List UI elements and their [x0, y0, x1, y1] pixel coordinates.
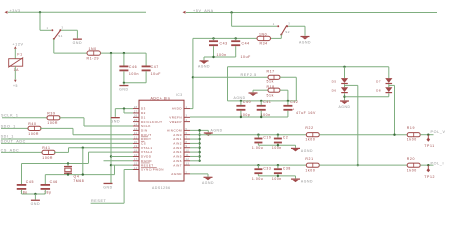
- pin 7 AIN1: [184, 138, 190, 140]
- svg-text:17: 17: [134, 158, 138, 161]
- svg-text:C45: C45: [26, 180, 34, 184]
- junction C41 bottom: [260, 116, 262, 118]
- wire AIN0 row A: [200, 134, 307, 136]
- resistor R39: [47, 116, 60, 120]
- svg-text:C38: C38: [283, 167, 291, 171]
- svg-text:SYNC/PWDN: SYNC/PWDN: [141, 168, 164, 172]
- resistor R17: [268, 75, 280, 79]
- svg-text:18: 18: [134, 150, 138, 153]
- junction RESET: [110, 164, 112, 166]
- capacitor C47: [145, 53, 147, 65]
- pin 20 CS: [133, 142, 139, 144]
- svg-text:7: 7: [186, 136, 188, 139]
- ground AGND R18: [249, 92, 258, 93]
- pin 16 DVDD: [133, 155, 139, 157]
- svg-text:C46: C46: [129, 65, 137, 69]
- wire +12V to fuse: [14, 49, 16, 59]
- svg-text:3: 3: [288, 22, 290, 26]
- svg-text:9: 9: [186, 145, 188, 148]
- wire down to C45: [21, 164, 23, 185]
- wire D3 D2 tie node: [115, 108, 133, 110]
- resistor R18: [268, 88, 280, 92]
- wire DVDD vertical: [110, 53, 112, 183]
- switch S1: [51, 29, 53, 31]
- pin 19 XTAL1: [133, 147, 139, 149]
- svg-text:AGND: AGND: [171, 172, 182, 176]
- svg-text:F1: F1: [17, 53, 22, 57]
- wire R17 to cap rail: [280, 76, 296, 78]
- wire row B caps gnd rail: [258, 175, 295, 177]
- svg-text:POL_I: POL_I: [431, 161, 445, 165]
- svg-text:13: 13: [186, 163, 190, 166]
- wire row A caps gnd rail: [258, 144, 295, 146]
- svg-text:GND: GND: [103, 185, 113, 189]
- ground AGND row B: [295, 176, 297, 179]
- wire clamp bottoms link: [345, 96, 389, 98]
- svg-text:1k00: 1k00: [305, 169, 315, 173]
- wire REF2.5: [193, 76, 268, 78]
- pin 9 AIN3: [184, 147, 190, 149]
- wire SCLK_1: [2, 117, 47, 119]
- pin 15 RESET: [133, 164, 139, 166]
- svg-text:AGND: AGND: [301, 180, 313, 184]
- svg-text:28: 28: [134, 106, 138, 109]
- wire right clamp to POL_V row: [394, 85, 396, 134]
- svg-text:1.00u: 1.00u: [252, 177, 263, 181]
- svg-text:100R: 100R: [28, 132, 39, 136]
- svg-text:10: 10: [186, 150, 190, 153]
- svg-text:TP12: TP12: [424, 175, 435, 179]
- svg-text:GND: GND: [31, 202, 41, 206]
- wire left clamp to POL_I row: [357, 85, 359, 165]
- wire VREFN bottom rail: [190, 116, 288, 118]
- wire RESET pin from crystal rail: [114, 165, 116, 174]
- diode D7: [388, 67, 390, 78]
- junction AIN tie: [198, 151, 200, 153]
- wire AIN7 row B: [190, 164, 306, 166]
- testpoint TP12: [427, 165, 429, 169]
- capacitor C44: [235, 38, 237, 40]
- supply +5 down arrow: [14, 80, 17, 83]
- resistor R22: [306, 133, 319, 137]
- junction C42: [287, 100, 289, 102]
- wire filter caps bottom rail: [124, 82, 146, 84]
- svg-text:AGND: AGND: [198, 65, 210, 69]
- wire row B to POL_I: [420, 164, 433, 166]
- svg-text:AGND: AGND: [202, 181, 214, 185]
- ground GND at switch S1: [73, 39, 82, 40]
- svg-text:25: 25: [134, 119, 138, 122]
- pin 18 XTAL2: [133, 151, 139, 153]
- svg-text:R17: R17: [267, 70, 275, 74]
- svg-text:14: 14: [134, 167, 138, 170]
- wire R39 to SCLK pin: [59, 117, 84, 119]
- svg-text:AGND: AGND: [301, 149, 313, 153]
- pin 27 D2: [133, 112, 139, 114]
- junction +3V3 rail: [39, 11, 41, 13]
- svg-text:51k: 51k: [267, 93, 274, 97]
- supply +3V3 arrow: [5, 11, 8, 14]
- junction diode feed row A: [393, 134, 395, 136]
- wire +3V3 rail: [8, 11, 146, 13]
- wire crystal caps gnd rail: [22, 193, 46, 195]
- svg-text:R39: R39: [47, 112, 55, 116]
- svg-text:R19: R19: [407, 126, 415, 130]
- svg-text:21: 21: [134, 136, 138, 139]
- svg-text:C43: C43: [220, 41, 228, 45]
- svg-text:1N0: 1N0: [259, 33, 267, 37]
- svg-text:100R: 100R: [42, 156, 53, 160]
- capacitor C42 polarized: [287, 101, 289, 105]
- wire R18 to cap rail: [280, 89, 288, 91]
- pin 8 AIN2: [184, 142, 190, 144]
- crystal Q4: [67, 164, 69, 166]
- svg-text:D8: D8: [376, 89, 381, 93]
- junction AIN tie: [198, 160, 200, 162]
- svg-text:SDO_1: SDO_1: [1, 124, 16, 128]
- pin 11 AIN5: [184, 155, 190, 157]
- wire AIN pins to tie: [190, 134, 200, 136]
- capacitor C41: [260, 101, 262, 105]
- ground AGND analog caps: [203, 57, 205, 60]
- svg-text:AGND: AGND: [211, 129, 223, 133]
- pin 12 AIN6: [184, 160, 190, 162]
- svg-text:16: 16: [134, 154, 138, 157]
- wire +3V3 drop to switch S1: [39, 12, 41, 30]
- wire row A to POL_V: [420, 134, 433, 136]
- ground GND filter caps: [123, 83, 125, 85]
- wire R41 to XTAL1 row: [54, 151, 69, 153]
- ground GND logic inputs: [114, 109, 116, 117]
- svg-text:C46: C46: [50, 180, 58, 184]
- pin 22 DOUT: [133, 134, 139, 136]
- junction AIN tie: [198, 134, 200, 136]
- svg-text:100R: 100R: [47, 121, 58, 125]
- junction C40 bottom: [240, 116, 242, 118]
- svg-text:1k00: 1k00: [305, 137, 315, 141]
- svg-text:1.00u: 1.00u: [252, 146, 263, 150]
- capacitor C40: [240, 101, 242, 105]
- resistor R21: [306, 163, 319, 167]
- svg-text:GND: GND: [111, 120, 121, 124]
- svg-text:10uF: 10uF: [241, 55, 251, 59]
- svg-text:R1-29: R1-29: [87, 56, 100, 60]
- svg-text:24: 24: [134, 123, 138, 126]
- svg-text:VREFP: VREFP: [169, 120, 182, 124]
- svg-text:3: 3: [186, 115, 188, 118]
- svg-text:1: 1: [273, 22, 275, 26]
- ground GND crystal caps: [34, 194, 36, 200]
- wire crystal top rail: [22, 163, 89, 165]
- resistor R20: [407, 163, 420, 167]
- ground AGND clamp: [340, 100, 349, 101]
- wire analog filter rail: [193, 37, 257, 39]
- wire crystal bottom rail: [45, 174, 114, 176]
- svg-text:R40: R40: [28, 122, 36, 126]
- pin 21 DRDY: [133, 138, 139, 140]
- wire DGND pin feed: [104, 160, 134, 162]
- svg-text:GND: GND: [73, 41, 83, 45]
- svg-text:1A: 1A: [14, 68, 20, 72]
- svg-text:+12V: +12V: [12, 43, 23, 47]
- svg-text:AIN7: AIN7: [173, 163, 182, 167]
- svg-text:47uF 16V: 47uF 16V: [296, 111, 316, 115]
- pin 1 AVDD: [184, 108, 190, 110]
- svg-text:8: 8: [186, 141, 188, 144]
- wire unused AIN tie vertical: [199, 130, 201, 160]
- svg-text:SDI_1: SDI_1: [1, 135, 14, 139]
- svg-text:100n: 100n: [272, 177, 282, 181]
- junction +5V_ANA: [230, 11, 232, 13]
- junction xtal1 rail: [82, 173, 84, 175]
- inductor L2 ferrite: [257, 36, 271, 40]
- svg-text:R18: R18: [267, 85, 275, 89]
- ground AGND at switch S2: [301, 36, 310, 37]
- junction AINCOM: [198, 129, 200, 131]
- op-amp IC3 ADS1256 box: [139, 100, 184, 181]
- svg-text:4: 4: [186, 119, 188, 122]
- junction gnd rail: [34, 193, 36, 195]
- svg-text:TP11: TP11: [424, 144, 435, 148]
- ground AGND ic: [207, 174, 209, 177]
- junction testpoint TP11: [427, 134, 429, 136]
- supply +5V_ANA arrow: [183, 11, 186, 14]
- junction filter gnd: [123, 82, 125, 84]
- svg-text:6: 6: [186, 132, 188, 135]
- svg-text:27: 27: [134, 110, 138, 113]
- wire cap rail up to clamp rail: [227, 67, 229, 101]
- resistor R19: [407, 133, 420, 137]
- junction AIN tie: [198, 142, 200, 144]
- svg-text:12: 12: [186, 158, 190, 161]
- svg-text:AGND: AGND: [299, 40, 311, 44]
- svg-text:51k: 51k: [267, 80, 274, 84]
- svg-text:11: 11: [186, 154, 190, 157]
- wire XTAL2 pin to crystal top rail: [89, 151, 134, 153]
- ground AGND AINCOM: [207, 130, 209, 132]
- svg-text:23: 23: [134, 128, 138, 131]
- pin 14 SYNC/PWDN: [133, 169, 139, 171]
- wire switch S2 bottom to analog rail: [280, 35, 282, 39]
- junction AIN tie: [198, 155, 200, 157]
- wire AGND to R18: [253, 89, 268, 91]
- junction C19: [257, 134, 259, 136]
- svg-text:R20: R20: [407, 157, 415, 161]
- pin 3 VREFN: [184, 116, 190, 118]
- pin 4 VREFP: [184, 121, 190, 123]
- svg-text:10uF: 10uF: [151, 72, 161, 76]
- svg-text:+: +: [292, 107, 295, 111]
- diode D6: [341, 87, 348, 92]
- wire SDO_1: [1, 127, 28, 129]
- pin 17 DGND: [133, 160, 139, 162]
- svg-text:100p: 100p: [240, 113, 250, 117]
- junction C20: [277, 134, 279, 136]
- svg-text:3: 3: [62, 26, 64, 30]
- capacitor C46: [123, 53, 125, 65]
- capacitor C46 xtal: [44, 175, 46, 184]
- wire row B middle: [319, 164, 407, 166]
- wire switch S1 to GND: [61, 29, 77, 31]
- junction testpoint TP12: [427, 164, 429, 166]
- wire SDI_1 to DRDY pin: [1, 138, 133, 140]
- svg-text:GND: GND: [119, 88, 129, 92]
- diode D5: [344, 67, 346, 78]
- svg-text:1k00: 1k00: [407, 137, 417, 141]
- wire XTAL1 vertical to crystal bottom rail: [82, 147, 84, 149]
- pin 23 DIN: [133, 129, 139, 131]
- pin 28 D3: [133, 108, 139, 110]
- capacitor C33: [257, 165, 259, 168]
- junction C41: [260, 100, 262, 102]
- svg-text:7M68: 7M68: [73, 179, 84, 183]
- junction C33: [257, 164, 259, 166]
- svg-text:15: 15: [134, 163, 138, 166]
- svg-text:1k00: 1k00: [407, 169, 417, 173]
- junction DVDD feed: [110, 52, 112, 54]
- wire DVDD pin feed: [110, 155, 112, 157]
- svg-text:D5: D5: [332, 79, 337, 83]
- junction crystal bottom: [67, 173, 69, 175]
- svg-text:D6: D6: [332, 89, 337, 93]
- wire DOUT_ADC to CS pin: [1, 142, 133, 144]
- pin 6 AIN0: [184, 134, 190, 136]
- svg-text:POL_V: POL_V: [431, 130, 446, 134]
- svg-text:R22: R22: [305, 126, 313, 130]
- svg-text:19: 19: [134, 145, 138, 148]
- wire AVDD feed vertical: [192, 38, 194, 108]
- svg-text:100n: 100n: [272, 146, 282, 150]
- svg-text:C19: C19: [263, 135, 271, 139]
- junction C46 top: [123, 52, 125, 54]
- junction clamp gnd: [343, 96, 345, 98]
- svg-text:2: 2: [186, 171, 188, 174]
- pin 26 D1: [133, 116, 139, 118]
- supply +12V arrow: [14, 46, 17, 49]
- wire fuse to +5: [14, 66, 16, 79]
- svg-text:RESET: RESET: [91, 199, 107, 203]
- wire 3V3 filtered rail: [101, 52, 147, 54]
- junction crystal top: [67, 162, 69, 164]
- inductor L1 ferrite: [87, 51, 101, 55]
- svg-text:REF2.5: REF2.5: [241, 73, 257, 77]
- svg-text:SCLK_1: SCLK_1: [1, 113, 19, 117]
- svg-text:20: 20: [134, 141, 138, 144]
- junction AIN tie: [198, 138, 200, 140]
- svg-text:100n: 100n: [261, 113, 271, 117]
- junction REF tap: [192, 76, 194, 78]
- wire analog caps bottom rail: [204, 56, 236, 58]
- capacitor C38: [277, 165, 279, 168]
- svg-text:1: 1: [186, 106, 188, 109]
- wire +5V_ANA rail: [186, 12, 437, 14]
- wire +5V_ANA to switch S2: [231, 13, 233, 27]
- wire AINCOM to AGND: [190, 129, 208, 131]
- testpoint TP11: [427, 135, 429, 139]
- wire CS_ADC: [1, 151, 42, 153]
- junction C44 top: [235, 37, 237, 39]
- junction analog caps gnd: [212, 56, 214, 58]
- svg-text:AVDD: AVDD: [172, 107, 182, 111]
- svg-text:ADC+ 8in: ADC+ 8in: [151, 97, 171, 101]
- svg-text:+5: +5: [13, 84, 18, 88]
- svg-text:26: 26: [134, 115, 138, 118]
- svg-text:R34: R34: [260, 42, 268, 46]
- svg-text:IC3: IC3: [176, 93, 183, 97]
- junction AIN tie: [198, 129, 200, 131]
- ground GND digital: [104, 183, 113, 184]
- capacitor C20: [277, 135, 279, 138]
- svg-text:1: 1: [47, 26, 49, 30]
- resistor R40: [28, 126, 41, 130]
- wire switch S2 to AGND: [288, 25, 305, 27]
- capacitor C43: [213, 38, 215, 40]
- pin 13 AIN7: [184, 164, 190, 166]
- svg-text:C40: C40: [243, 100, 251, 104]
- svg-text:R41: R41: [42, 146, 50, 150]
- wire clamp supply rail: [228, 66, 389, 68]
- svg-text:C47: C47: [151, 65, 159, 69]
- svg-text:D7: D7: [376, 79, 381, 83]
- svg-text:100n: 100n: [129, 72, 139, 76]
- wire clamp mid left tap: [345, 84, 358, 86]
- svg-text:S2: S2: [285, 30, 290, 34]
- svg-text:C42: C42: [290, 100, 298, 104]
- ground AGND row A: [295, 145, 297, 148]
- junction AIN tie: [198, 147, 200, 149]
- junction C38: [277, 164, 279, 166]
- wire RESET net to SYNC pin: [91, 202, 125, 204]
- wire AGND pin: [190, 173, 208, 175]
- svg-text:22: 22: [134, 132, 138, 135]
- svg-text:C2: C2: [283, 135, 289, 139]
- pin 25 D0/CLKOUT: [133, 121, 139, 123]
- resistor R41: [42, 150, 55, 154]
- switch S2: [277, 25, 279, 27]
- pin 10 AIN4: [184, 151, 190, 153]
- svg-text:S1: S1: [58, 34, 63, 38]
- svg-text:AGND: AGND: [338, 105, 350, 109]
- svg-text:C33: C33: [263, 167, 271, 171]
- pin 5 AINCOM: [184, 129, 190, 131]
- wire vref cap top rail: [228, 100, 297, 102]
- svg-text:5: 5: [186, 128, 188, 131]
- svg-text:C41: C41: [263, 100, 271, 104]
- capacitor C19: [257, 135, 259, 138]
- wire row A middle: [319, 134, 407, 136]
- junction C43 top: [212, 37, 214, 39]
- junction row B mid tap: [357, 164, 359, 166]
- wire R40 to DOUT pin: [40, 127, 73, 129]
- wire switch S1 bottom to 3V3 filter rail: [53, 39, 55, 53]
- diode D8: [385, 87, 392, 92]
- svg-text:ADS1256: ADS1256: [152, 186, 171, 190]
- junction C40: [240, 100, 242, 102]
- pin 24 SCLK: [133, 125, 139, 127]
- svg-text:R21: R21: [305, 157, 313, 161]
- svg-text:C44: C44: [242, 41, 250, 45]
- pin 2 AGND: [184, 173, 190, 175]
- junction clamp rail: [343, 66, 345, 68]
- wire clamp mid right tap: [389, 84, 395, 86]
- svg-text:1N0: 1N0: [89, 47, 97, 51]
